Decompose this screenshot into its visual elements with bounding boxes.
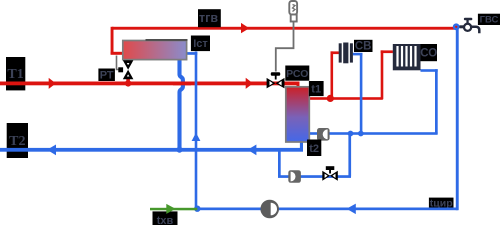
wire blue exchanger 1 outlet with bridge over red main xyxy=(180,60,183,149)
node txv cold water label xyxy=(153,211,178,227)
wire blue SV return top elbow xyxy=(353,53,363,56)
heat exchanger 1 (stage I) xyxy=(123,39,188,60)
wire blue heating return main xyxy=(309,132,437,135)
node junction red at PT branch xyxy=(125,80,131,86)
wire blue bypass horizontal xyxy=(278,175,351,178)
node T2 return label xyxy=(7,123,28,158)
node tcir circulation label xyxy=(429,198,454,210)
wire blue return riser from SO radiator xyxy=(435,69,438,134)
wire blue circulation bottom line xyxy=(197,208,458,211)
radiator SO xyxy=(393,44,421,70)
wire red elbow into heat exchanger 2 top xyxy=(297,83,300,89)
svg-text:тгв: тгв xyxy=(199,11,218,25)
svg-text:Т2: Т2 xyxy=(9,134,25,149)
wire blue elbow from exchanger 2 bottom xyxy=(300,142,303,150)
node SO label xyxy=(420,44,437,61)
wire red heating supply t1 xyxy=(307,97,383,100)
node PT label xyxy=(98,69,115,82)
wire green cold water inlet xyxy=(150,208,197,211)
node tgv label xyxy=(198,9,221,27)
heater SV (towel warmer) bars xyxy=(339,43,353,64)
arrow red on main line before PCO xyxy=(246,78,253,89)
node I st label (first stage) xyxy=(191,36,210,52)
node T1 supply label xyxy=(6,57,25,90)
wire red branch to SO radiator xyxy=(381,50,384,99)
faucet GVS tap xyxy=(460,18,480,34)
node junction blue bypass tee xyxy=(348,131,354,137)
arrow blue left on circulation line xyxy=(347,204,356,215)
node SV label xyxy=(354,40,373,53)
sensor thermostat capsule xyxy=(289,1,297,22)
wire blue T2 return main xyxy=(0,148,303,152)
node junction blue T2 and exchanger 1 outlet xyxy=(177,147,183,153)
node t2 label xyxy=(307,140,321,157)
svg-text:РТ: РТ xyxy=(100,70,114,82)
node junction blue SV return tee xyxy=(358,131,364,137)
wire gray PT sensor impulse line xyxy=(117,56,120,70)
valve RT (regulator, vertical) xyxy=(118,60,133,79)
wire gray PCO sensor line to thermostat xyxy=(276,22,294,72)
wire red top line to GVS xyxy=(112,27,457,30)
svg-text:СВ: СВ xyxy=(355,41,372,53)
node GVS label xyxy=(478,14,500,26)
arrow blue on T2 middle xyxy=(248,145,257,156)
heat exchanger 2 (stage II / heating) xyxy=(286,87,310,142)
svg-text:tхв: tхв xyxy=(157,215,174,225)
wire blue SO radiator bottom stub xyxy=(421,69,438,72)
arrow green cold water xyxy=(166,204,175,214)
svg-text:СО: СО xyxy=(420,48,437,60)
wire blue bypass up to return main xyxy=(348,134,351,177)
wire blue bypass down from T2 xyxy=(278,150,281,178)
svg-text:t2: t2 xyxy=(309,143,319,155)
valve PCO (3-way regulator, horizontal) xyxy=(267,72,285,88)
wire blue cold water riser xyxy=(195,52,198,209)
node t1 label xyxy=(309,81,324,96)
svg-text:ГВС: ГВС xyxy=(480,15,499,26)
wire red main over bridge crossing xyxy=(173,82,191,86)
svg-text:t1: t1 xyxy=(311,84,321,96)
wire red PT branch upper xyxy=(126,59,130,64)
check valve on bypass xyxy=(288,170,301,183)
node junction red heating supply xyxy=(327,95,334,102)
node junction blue at GVS tap xyxy=(453,23,460,30)
wire red supply main T1 xyxy=(0,82,300,86)
svg-text:Iст: Iст xyxy=(193,38,208,50)
wire blue riser top elbow to exchanger 1 xyxy=(187,52,198,55)
wire blue SV return drop xyxy=(360,53,363,134)
wire blue circulation right riser xyxy=(456,27,459,211)
valve on bypass (manual) xyxy=(322,166,338,181)
arrow blue on T2 left xyxy=(47,145,56,156)
pump on circulation line xyxy=(260,200,279,219)
arrow blue up on cold riser xyxy=(192,133,201,141)
node PCO label xyxy=(285,66,309,81)
wire red branch to SV xyxy=(331,51,334,98)
node junction blue cold riser bottom xyxy=(194,206,200,212)
check valve on heating return xyxy=(317,128,330,141)
svg-text:Т1: Т1 xyxy=(7,67,23,82)
wire red left riser to exchanger 1 xyxy=(111,27,114,55)
arrow red on main line left xyxy=(49,78,56,89)
wire red PT branch lower xyxy=(126,78,130,84)
svg-text:РСО: РСО xyxy=(286,68,308,80)
arrow red on top line xyxy=(241,23,249,33)
